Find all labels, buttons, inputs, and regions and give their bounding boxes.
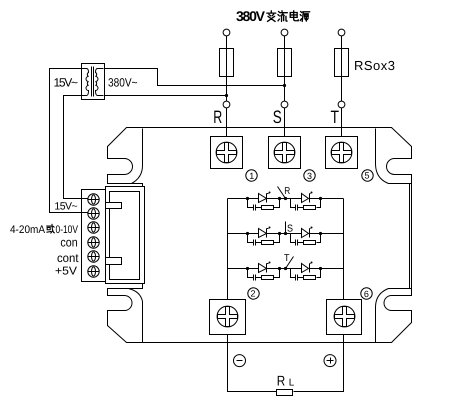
load resistor RL bbox=[277, 390, 293, 396]
SCR row S bbox=[228, 227, 344, 246]
fuse S bbox=[278, 49, 292, 77]
svg-text:0-10V: 0-10V bbox=[56, 224, 79, 236]
svg-text:RSox3: RSox3 bbox=[354, 58, 395, 73]
wire DC plus down bbox=[294, 335, 344, 392]
capacitor snubber R1 bbox=[254, 205, 256, 211]
module corner transition bottom-right bbox=[376, 289, 412, 343]
resistor snubber S2 bbox=[304, 241, 316, 245]
wire snubber R1 right leg bbox=[274, 199, 280, 208]
wire row R from left bus bbox=[228, 198, 248, 200]
wire row T from left bus bbox=[228, 268, 248, 270]
wire snubber R2 left leg bbox=[291, 199, 296, 208]
fuse T RSox3 bbox=[335, 49, 349, 77]
wire row S block1 cathode lead bbox=[267, 233, 280, 235]
wire snubber T2 left leg bbox=[291, 269, 296, 278]
polarity minus symbol bbox=[234, 355, 246, 367]
wire row S block2 anode lead bbox=[291, 233, 302, 235]
thyristor R2 bbox=[302, 194, 309, 203]
control plug outer housing bbox=[106, 187, 145, 284]
junction dot on S bbox=[283, 84, 286, 87]
wire snubber R1 mid bbox=[256, 207, 262, 209]
terminal circle T lower bbox=[338, 101, 345, 108]
wire row S from left bus bbox=[228, 233, 248, 235]
svg-text:S: S bbox=[273, 107, 282, 127]
thyristor T1 bbox=[259, 264, 267, 273]
screw terminal 6 +5V bbox=[88, 266, 100, 277]
svg-text:S: S bbox=[287, 224, 293, 235]
circled number 2 bbox=[248, 288, 259, 299]
transformer T1 box bbox=[82, 64, 105, 100]
svg-text:T: T bbox=[284, 253, 290, 264]
wire DC minus down bbox=[228, 335, 277, 392]
capacitor snubber T1 bbox=[254, 275, 256, 281]
wire 15V bottom-left to screw1 bbox=[64, 96, 88, 199]
thyristor R1 gate bbox=[267, 193, 269, 195]
terminal circle R top bbox=[223, 29, 230, 36]
wire snubber R2 right leg bbox=[317, 199, 321, 208]
wire snubber R2 mid bbox=[298, 207, 304, 209]
wire snubber T1 mid bbox=[256, 277, 262, 279]
wire row T block2 cathode lead bbox=[310, 268, 321, 270]
svg-text:15V~: 15V~ bbox=[54, 200, 77, 212]
resistor snubber R2 bbox=[304, 206, 316, 210]
transformer secondary coil bbox=[96, 69, 104, 96]
wire row S midpoint segment bbox=[280, 233, 291, 235]
thyristor R2 gate bbox=[310, 193, 311, 195]
screw terminal 5 cont bbox=[88, 251, 100, 262]
wire row S to right bus bbox=[321, 233, 344, 235]
terminal box 5 (T) bbox=[326, 137, 358, 169]
junction dots row S bbox=[246, 232, 249, 235]
svg-text:5: 5 bbox=[364, 171, 369, 181]
svg-text:T: T bbox=[331, 107, 340, 127]
wire row T midpoint segment bbox=[280, 268, 291, 270]
circled number 1 bbox=[246, 170, 257, 181]
svg-text:2: 2 bbox=[250, 289, 255, 299]
wire phase S vertical bbox=[284, 36, 286, 137]
module corner transition bottom-left bbox=[129, 289, 143, 343]
screw terminal 3 4-20mA bbox=[88, 222, 100, 233]
thyristor R1 bbox=[259, 194, 267, 203]
thyristor S1 gate bbox=[267, 228, 269, 230]
wire row T block2 anode lead bbox=[291, 268, 302, 270]
svg-text:380V: 380V bbox=[236, 8, 266, 24]
wire phase T vertical bbox=[341, 36, 343, 137]
wire snubber T1 right leg bbox=[274, 269, 280, 278]
svg-text:+5V: +5V bbox=[55, 266, 77, 278]
SCR row R bbox=[228, 192, 344, 211]
svg-text:L: L bbox=[289, 378, 295, 389]
svg-text:R: R bbox=[213, 107, 222, 127]
capacitor snubber T2 bbox=[296, 275, 298, 281]
right DC bus bbox=[343, 199, 345, 300]
capacitor snubber S1 bbox=[254, 240, 256, 246]
module corner transition top-right bbox=[376, 129, 412, 184]
junction dots row T bbox=[246, 267, 249, 270]
wire phase R vertical bbox=[226, 36, 228, 137]
terminal box 3 (S) bbox=[269, 137, 301, 169]
wire row T block1 cathode lead bbox=[267, 268, 280, 270]
transformer core bbox=[92, 67, 94, 97]
wire snubber S1 right leg bbox=[274, 234, 280, 243]
module corner transition top-left bbox=[132, 129, 143, 184]
wire row T to right bus bbox=[321, 268, 344, 270]
thyristor S2 gate bbox=[310, 228, 311, 230]
svg-text:R: R bbox=[284, 186, 290, 197]
wire snubber S2 left leg bbox=[291, 234, 296, 243]
terminal box 1 (R) bbox=[211, 137, 243, 169]
svg-text:1: 1 bbox=[249, 171, 254, 181]
junction dot on R bbox=[225, 94, 228, 97]
wire row R block1 anode lead bbox=[248, 198, 259, 200]
node stub R bbox=[278, 187, 286, 199]
svg-text:3: 3 bbox=[307, 171, 312, 181]
wire snubber S2 right leg bbox=[317, 234, 321, 243]
wire 15V top-left to screw2 bbox=[50, 69, 88, 213]
resistor snubber T1 bbox=[262, 276, 274, 280]
polarity plus symbol bbox=[324, 355, 336, 367]
wire row S block2 cathode lead bbox=[310, 233, 321, 235]
wire snubber S1 mid bbox=[256, 242, 262, 244]
resistor snubber T2 bbox=[304, 276, 316, 280]
circled number 5 bbox=[362, 170, 373, 181]
plug key tab lower bbox=[106, 258, 122, 265]
svg-text:cont: cont bbox=[57, 251, 79, 265]
thyristor S1 bbox=[259, 229, 267, 238]
terminal box 6 (plus) bbox=[327, 300, 362, 335]
wire row R block1 cathode lead bbox=[267, 198, 280, 200]
svg-text:R: R bbox=[277, 373, 286, 389]
terminal strip bbox=[82, 190, 106, 282]
control plug inner body bbox=[110, 192, 140, 280]
SSR module body outline bbox=[108, 128, 412, 343]
wire snubber T2 mid bbox=[298, 277, 304, 279]
thyristor T1 gate bbox=[267, 263, 269, 265]
wire snubber R1 left leg bbox=[248, 199, 254, 208]
terminal circle S top bbox=[281, 29, 288, 36]
thyristor S2 bbox=[302, 229, 309, 238]
terminal box 2 (minus) bbox=[210, 300, 246, 335]
thyristor T2 bbox=[302, 264, 309, 273]
terminal circle R lower bbox=[223, 101, 230, 108]
wire row T block1 anode lead bbox=[248, 268, 259, 270]
wire stubs into screws 1-2 (over strip) bbox=[82, 199, 88, 213]
wire row R to right bus bbox=[321, 198, 344, 200]
transformer primary coil bbox=[82, 69, 89, 96]
node stub T bbox=[286, 257, 294, 269]
wire transformer secondary bottom to R bbox=[104, 95, 227, 97]
wire row R midpoint segment bbox=[280, 198, 291, 200]
wire snubber S1 left leg bbox=[248, 234, 254, 243]
screw terminal 2 15V~ bbox=[88, 208, 100, 219]
circled number 6 bbox=[361, 288, 372, 299]
SCR row T bbox=[228, 262, 344, 281]
screw terminal 1 15V~ bbox=[88, 194, 100, 205]
fuse R bbox=[220, 49, 234, 77]
wire row R block2 cathode lead bbox=[310, 198, 321, 200]
wire row S block1 anode lead bbox=[248, 233, 259, 235]
node stub S bbox=[285, 222, 287, 234]
svg-text:380V~: 380V~ bbox=[108, 76, 138, 90]
left DC bus bbox=[227, 199, 229, 300]
terminal circle S lower bbox=[281, 101, 288, 108]
plug key tab upper bbox=[106, 203, 122, 209]
capacitor snubber R2 bbox=[296, 205, 298, 211]
module inner right edge between wings bbox=[409, 184, 411, 289]
capacitor snubber S2 bbox=[296, 240, 298, 246]
circled number 3 bbox=[304, 170, 315, 181]
svg-text:6: 6 bbox=[364, 289, 369, 299]
terminal circle T top bbox=[338, 29, 345, 36]
wire snubber T1 left leg bbox=[248, 269, 254, 278]
screw terminal 4 con bbox=[88, 237, 100, 248]
resistor snubber R1 bbox=[262, 206, 274, 210]
svg-text:4-20mA: 4-20mA bbox=[10, 224, 46, 236]
wire row R block2 anode lead bbox=[291, 198, 302, 200]
wire transformer secondary top to S bbox=[104, 69, 285, 86]
svg-text:con: con bbox=[60, 236, 77, 250]
thyristor T2 gate bbox=[310, 263, 311, 265]
svg-text:15V~: 15V~ bbox=[54, 76, 79, 90]
resistor snubber S1 bbox=[262, 241, 274, 245]
wire snubber S2 mid bbox=[298, 242, 304, 244]
wire snubber T2 right leg bbox=[317, 269, 321, 278]
junction dots row R bbox=[246, 197, 249, 200]
